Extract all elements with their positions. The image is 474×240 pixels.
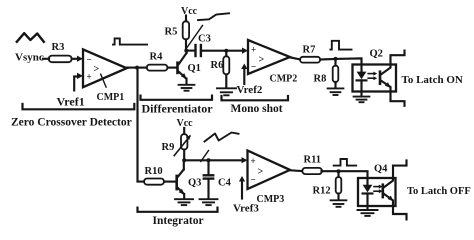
wire CMP2 output to R7 (290, 57, 300, 59)
wire R7 to R8 node (320, 58, 335, 61)
junction R6 top (224, 49, 228, 53)
bracket: Integrator (138, 208, 218, 212)
collector (384, 160, 407, 187)
svg-text:−: − (251, 62, 256, 72)
svg-text:>: > (259, 55, 265, 66)
light arrows (368, 72, 377, 81)
svg-text:Q1: Q1 (188, 63, 201, 74)
ground (under R12) (331, 200, 347, 207)
optocoupler Q2 (353, 48, 405, 105)
junction R8 top (334, 57, 338, 61)
LED (inside Q4) (363, 185, 373, 193)
svg-text:R11: R11 (304, 154, 322, 165)
junction C4 top (207, 158, 211, 162)
wire R10 to Q3 base (164, 181, 176, 183)
svg-text:Q2: Q2 (370, 48, 383, 59)
svg-text:Vref2: Vref2 (237, 84, 263, 96)
svg-text:R4: R4 (150, 52, 164, 63)
wire CMP3 output to R11 (290, 169, 301, 172)
svg-text:Zero Crossover Detector: Zero Crossover Detector (11, 116, 132, 128)
svg-text:−: − (251, 175, 256, 185)
svg-text:To Latch ON: To Latch ON (402, 74, 463, 86)
resistor R7 (300, 57, 320, 63)
svg-text:CMP1: CMP1 (97, 92, 125, 103)
svg-text:Integrator: Integrator (153, 215, 204, 227)
svg-text:R9: R9 (162, 142, 175, 153)
wire C3 to CMP2 + input (201, 50, 243, 52)
junction R9/Q3 collector (182, 158, 186, 162)
optocoupler Q4 (358, 160, 407, 219)
svg-text:Differentiator: Differentiator (142, 102, 214, 116)
transistor Q3 (175, 169, 201, 194)
svg-text:R8: R8 (314, 73, 327, 84)
light arrows (374, 185, 383, 194)
svg-text:R3: R3 (52, 42, 65, 53)
ground (under C4) (200, 199, 218, 205)
wire Q1 collector to R5/C3 node (185, 51, 187, 53)
emitter with arrow (381, 81, 405, 106)
svg-text:+: + (251, 156, 256, 166)
wire Q1 emitter to ground (185, 79, 187, 84)
svg-text:R7: R7 (303, 45, 316, 56)
svg-text:R6: R6 (211, 60, 224, 71)
capacitor C3 (196, 34, 211, 56)
resistor R4 (147, 65, 168, 71)
Vref1 source lead with arrow into + input (74, 76, 77, 90)
junction node A (135, 66, 139, 70)
op-amp U2 CMP2 (248, 40, 297, 85)
wire R6 to ground (225, 74, 227, 87)
resistor R12 (337, 171, 339, 177)
LED cathode lead to ground (366, 194, 368, 210)
waveform: pulse annotation at CMP1 output (113, 38, 147, 44)
junction R5/C3/Q1 node (184, 49, 188, 53)
resistor R6 (225, 51, 227, 57)
waveform: pulse annotation after R11 (334, 159, 357, 166)
ground (under R8) (328, 88, 344, 95)
wire R9 to integrator node (183, 150, 185, 161)
svg-text:Vsync: Vsync (15, 52, 44, 64)
svg-text:C3: C3 (198, 34, 211, 45)
svg-text:C4: C4 (218, 177, 232, 188)
junction R12 top (337, 169, 341, 173)
svg-text:Q3: Q3 (188, 177, 201, 188)
svg-text:R12: R12 (313, 185, 331, 196)
svg-text:Q4: Q4 (374, 164, 388, 175)
resistor R8 (334, 59, 336, 66)
ground (under Q1) (179, 85, 195, 91)
svg-text:Vref3: Vref3 (233, 203, 259, 215)
svg-text:Vcc: Vcc (181, 6, 198, 17)
wire R3 to CMP1 inverting input (72, 58, 78, 60)
wire R8 to ground (334, 82, 336, 88)
transistor Q1 (176, 53, 201, 79)
svg-text:CMP2: CMP2 (270, 74, 298, 85)
ground (under Q4 LED) (358, 210, 378, 216)
svg-text:Vref1: Vref1 (57, 95, 85, 109)
LED anode lead (366, 178, 368, 185)
arrowhead into CMP2 + input (242, 48, 248, 54)
annotation leader line at C4 node (201, 151, 209, 162)
svg-text:−: − (87, 55, 92, 65)
ground (under Q2 LED) (354, 97, 370, 103)
op-amp U3 CMP3 (248, 151, 291, 206)
waveform: sawtooth input annotation (17, 33, 44, 42)
ground (under R6) (217, 88, 236, 95)
wire Q3 emitter to ground (183, 194, 185, 198)
bracket: Differentiator (141, 96, 213, 100)
wire R11 to R12 node (322, 170, 339, 172)
phototransistor base bar (379, 70, 382, 85)
wire Q3 collector to integrator node (183, 160, 185, 169)
resistor R11 (302, 168, 322, 174)
svg-text:Mono shot: Mono shot (231, 103, 283, 115)
waveform: pulse annotation after R7 (330, 41, 351, 50)
annotation leader line at C3 node (187, 26, 203, 48)
wire node A to R4 (137, 67, 147, 69)
bracket: Zero Crossover Detector (23, 104, 135, 109)
arrowhead into CMP1 - input (77, 56, 83, 62)
LED (inside Q2) (357, 72, 367, 80)
emitter with arrow (384, 194, 407, 220)
wire node to opto Q4 LED (339, 171, 368, 178)
wire R5 to node (R5/C3/Q1) (185, 39, 187, 50)
wire Vsync to R3 (43, 58, 49, 60)
resistor R5 (183, 21, 189, 39)
svg-text:CMP3: CMP3 (257, 194, 285, 205)
wire node to opto Q2 LED (336, 58, 362, 64)
collector (381, 51, 405, 75)
wire R12 to ground (337, 194, 339, 200)
svg-text:R10: R10 (145, 166, 163, 177)
capacitor C4 (204, 160, 232, 198)
svg-text:+: + (87, 72, 92, 82)
waveform: sawtooth annotation above C4 (205, 133, 239, 142)
wire R4 to Q1 base (168, 67, 177, 69)
resistor R10 (144, 179, 164, 185)
ground (under Q3) (175, 199, 193, 205)
svg-text:>: > (94, 64, 100, 75)
resistor R3 (49, 56, 72, 63)
Vref3 source lead with arrow into - input (241, 181, 243, 199)
op-amp U1 CMP1 (83, 49, 127, 103)
LED cathode lead to ground (360, 80, 362, 95)
wire CMP1 output to node A (127, 67, 137, 69)
phototransistor base bar (382, 183, 385, 198)
arrowhead into CMP3 + input (242, 157, 248, 163)
svg-text:R5: R5 (165, 27, 178, 38)
wire node A down to integrator R10 (138, 68, 145, 182)
wire integrator node to CMP3 + input (184, 159, 242, 161)
Vref2 source lead with arrow into - input (243, 69, 245, 85)
wire node to C3 (186, 50, 194, 52)
svg-text:>: > (258, 167, 264, 178)
waveform: step annotation above C3 (198, 13, 229, 20)
bracket: Mono shot (222, 96, 289, 100)
svg-text:+: + (251, 45, 256, 55)
svg-text:To Latch OFF: To Latch OFF (407, 186, 471, 197)
resistor R9 (with arrow) (181, 134, 187, 150)
LED anode lead (360, 65, 362, 72)
